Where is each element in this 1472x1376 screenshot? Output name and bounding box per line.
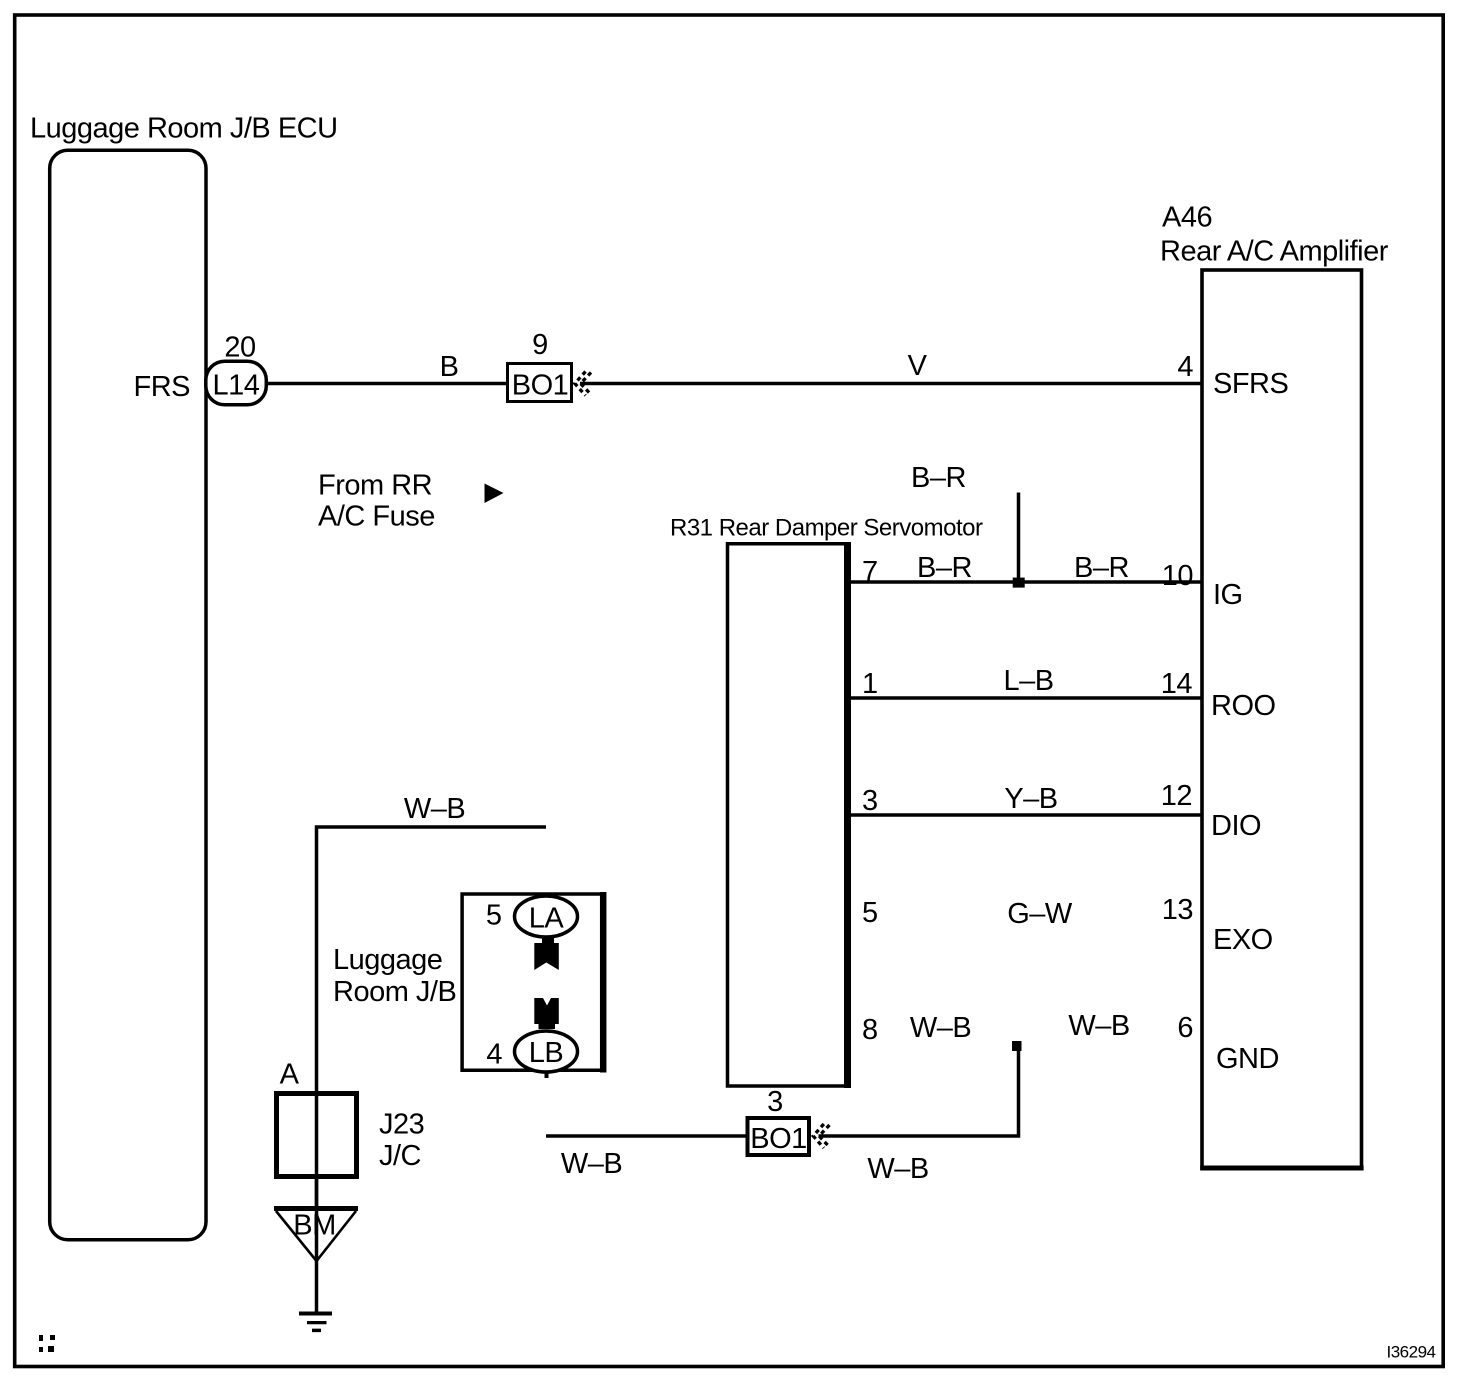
wire BM to ground [315, 1261, 319, 1312]
ground triangle BM sides [276, 1211, 356, 1261]
svg-text:20: 20 [224, 332, 255, 364]
connector L14 oval [206, 361, 266, 405]
Luggage Room J/B thick right edge [600, 892, 607, 1073]
servomotor thick right edge [844, 542, 851, 1088]
svg-text:14: 14 [1161, 668, 1193, 700]
svg-text:J23: J23 [379, 1109, 424, 1141]
svg-text:5: 5 [486, 900, 502, 932]
svg-text:SFRS: SFRS [1213, 368, 1289, 400]
svg-text:W–B: W–B [404, 793, 465, 825]
svg-text:GND: GND [1216, 1043, 1279, 1075]
junction dot top of W-B ground wire [1012, 1041, 1022, 1051]
svg-text:BO1: BO1 [750, 1123, 807, 1155]
dashed arrow at BO1 (top) [575, 372, 586, 396]
svg-text:7: 7 [862, 556, 878, 588]
wire J23 to BM ground triangle [315, 1179, 319, 1261]
svg-text:4: 4 [486, 1039, 502, 1071]
svg-text:W–B: W–B [561, 1148, 622, 1180]
svg-text:From RR: From RR [318, 470, 432, 502]
svg-text:A46: A46 [1162, 202, 1212, 234]
svg-text:LA: LA [529, 903, 565, 935]
svg-text:L–B: L–B [1003, 665, 1053, 697]
svg-text:Luggage Room J/B ECU: Luggage Room J/B ECU [30, 113, 338, 145]
svg-text:A: A [280, 1059, 300, 1091]
svg-text:13: 13 [1162, 894, 1193, 926]
wire pin7 to IG pin10 (B-R) [851, 580, 1202, 584]
svg-text:R31 Rear Damper Servomotor: R31 Rear Damper Servomotor [670, 515, 983, 542]
connector BO1 (bottom) [748, 1118, 810, 1155]
ground symbol [299, 1312, 332, 1316]
svg-text:9: 9 [532, 329, 548, 361]
svg-text:IG: IG [1213, 579, 1243, 611]
arrow (from RR A/C fuse) [485, 484, 504, 504]
svg-text:BM: BM [293, 1210, 336, 1242]
ground triangle BM top bar [274, 1206, 358, 1211]
svg-text:W–B: W–B [910, 1012, 971, 1044]
wire pin1 to ROO pin14 (L-B) [851, 696, 1202, 700]
svg-text:EXO: EXO [1213, 924, 1273, 956]
svg-text:W–B: W–B [1068, 1010, 1129, 1042]
stub under LB [545, 1072, 549, 1078]
svg-text:Luggage: Luggage [333, 944, 442, 976]
svg-text:Room J/B: Room J/B [333, 976, 456, 1008]
W-B wire from ECU area down to J23 [317, 827, 547, 1206]
svg-text:8: 8 [862, 1014, 878, 1046]
svg-text:J/C: J/C [379, 1140, 421, 1172]
svg-text:DIO: DIO [1211, 810, 1261, 842]
svg-text:A/C Fuse: A/C Fuse [318, 501, 435, 533]
servomotor R31 box [728, 544, 846, 1086]
wire B from L14 to BO1 [268, 382, 506, 386]
svg-text:1: 1 [862, 668, 878, 700]
connector BO1 (top) [508, 364, 572, 402]
svg-text:5: 5 [862, 897, 878, 929]
junction connector J23 box [277, 1094, 357, 1177]
svg-text:4: 4 [1177, 351, 1193, 383]
svg-text:6: 6 [1177, 1012, 1193, 1044]
svg-text:G–W: G–W [1007, 898, 1073, 930]
svg-text:3: 3 [862, 785, 878, 817]
amplifier A46 box [1202, 270, 1362, 1168]
connector LA oval [515, 896, 578, 937]
junction dot on IG wire [1013, 578, 1025, 588]
Luggage Room J/B box [462, 894, 600, 1070]
svg-text:10: 10 [1162, 560, 1193, 592]
svg-text:FRS: FRS [134, 371, 191, 403]
svg-text:12: 12 [1161, 780, 1192, 812]
connector LB oval [515, 1031, 578, 1072]
svg-text:ROO: ROO [1211, 690, 1276, 722]
W-B ground wire vertical+horizontal to BO1 [819, 1045, 1019, 1136]
wire W-B into BO1 (bottom, from LB side) [546, 1134, 747, 1138]
svg-text:V: V [908, 350, 928, 382]
terminal banner lower [534, 998, 559, 1029]
terminal banner upper [534, 937, 559, 971]
vertical B-R stub wire [1017, 493, 1021, 583]
svg-text:B–R: B–R [917, 552, 972, 584]
wire pin3 to DIO pin12 (Y-B) [851, 813, 1202, 817]
svg-text:Rear A/C Amplifier: Rear A/C Amplifier [1160, 236, 1389, 268]
svg-text:I36294: I36294 [1387, 1343, 1436, 1362]
svg-text:W–B: W–B [867, 1153, 928, 1185]
corner pixel mark [39, 1335, 43, 1341]
dashed arrow at BO1 (bottom) [813, 1124, 824, 1148]
amplifier bottom thick edge [1200, 1166, 1363, 1171]
ECU body (Luggage Room J/B ECU rounded rectangle) [50, 150, 206, 1239]
wire V from BO1 to amplifier pin 4 [580, 382, 1202, 386]
svg-text:Y–B: Y–B [1004, 783, 1057, 815]
svg-text:LB: LB [529, 1037, 563, 1069]
svg-text:BO1: BO1 [512, 370, 569, 402]
svg-text:B–R: B–R [911, 462, 966, 494]
svg-text:B–R: B–R [1074, 552, 1129, 584]
svg-text:B: B [440, 351, 459, 383]
svg-text:3: 3 [767, 1086, 783, 1118]
svg-text:L14: L14 [213, 370, 260, 402]
